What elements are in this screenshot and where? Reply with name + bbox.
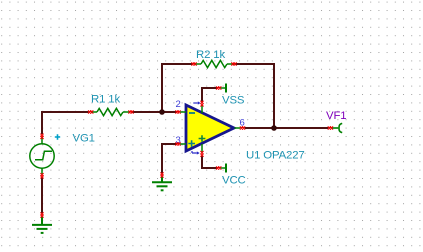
wire VG1 top riser to input net [42,112,89,134]
ground below VG1 [32,217,52,233]
voltage source VG1 [30,137,54,175]
VG1 plus polarity mark [55,134,60,139]
wire VG1 bottom to ground [41,178,43,214]
svg-text:2: 2 [176,99,181,110]
wire pin3 to ground riser [162,144,177,173]
pin x R2 right [231,62,236,65]
pin x op-amp pin2 [175,110,180,113]
svg-text:R1 1k: R1 1k [91,93,120,105]
pin x op-amp top power [200,101,203,107]
op-amp U1 body [186,105,234,151]
ground at pin3 [152,177,172,191]
svg-text:VSS: VSS [222,95,245,107]
op-amp bottom pin arrow [192,151,200,155]
pin x pin3 ground [160,172,163,177]
op-amp pin stubs [180,106,241,153]
resistor R1 [91,108,130,115]
svg-text:U1 OPA227: U1 OPA227 [246,150,305,162]
pin x op-amp pin3 [175,142,180,145]
pin x VF1 probe [328,126,333,129]
svg-text:VF1: VF1 [326,110,346,122]
op-amp top pin arrow [193,101,200,104]
wire op-amp output to VF1 [245,127,329,129]
op-amp plus mark input [188,140,195,147]
node junction output/feedback [271,125,277,131]
op-amp minus mark [189,112,195,114]
pin x VCC jumper [216,166,221,169]
pin x R1 left [88,110,93,113]
pin x R1 right [128,110,133,113]
pin x VG1 top [40,134,43,139]
svg-text:R2 1k: R2 1k [196,49,225,61]
pin x VG1 ground [40,212,43,217]
pin x VG1 bottom [40,173,43,178]
wire feedback left riser to R2 [162,64,193,112]
pin x op-amp bottom power [200,151,203,157]
wire op-amp V- pin to VCC jumper [202,156,217,169]
op-amp plus mark supply [199,135,206,142]
resistor R2 [195,60,234,67]
pin x op-amp pin6 [240,126,245,129]
svg-text:VG1: VG1 [73,133,95,145]
pin x VSS jumper [216,86,221,89]
wire R1 right to op-amp pin2 [132,111,177,113]
voltage probe VF1 [332,123,342,132]
VCC jumper terminal [221,164,227,173]
VSS jumper terminal [221,84,227,93]
node junction input/feedback [159,109,165,115]
wire R2 right riser to output net [236,64,275,127]
pin x R2 left [191,62,196,65]
wire op-amp V+ pin to VSS jumper [202,88,217,102]
svg-text:VCC: VCC [222,175,246,187]
